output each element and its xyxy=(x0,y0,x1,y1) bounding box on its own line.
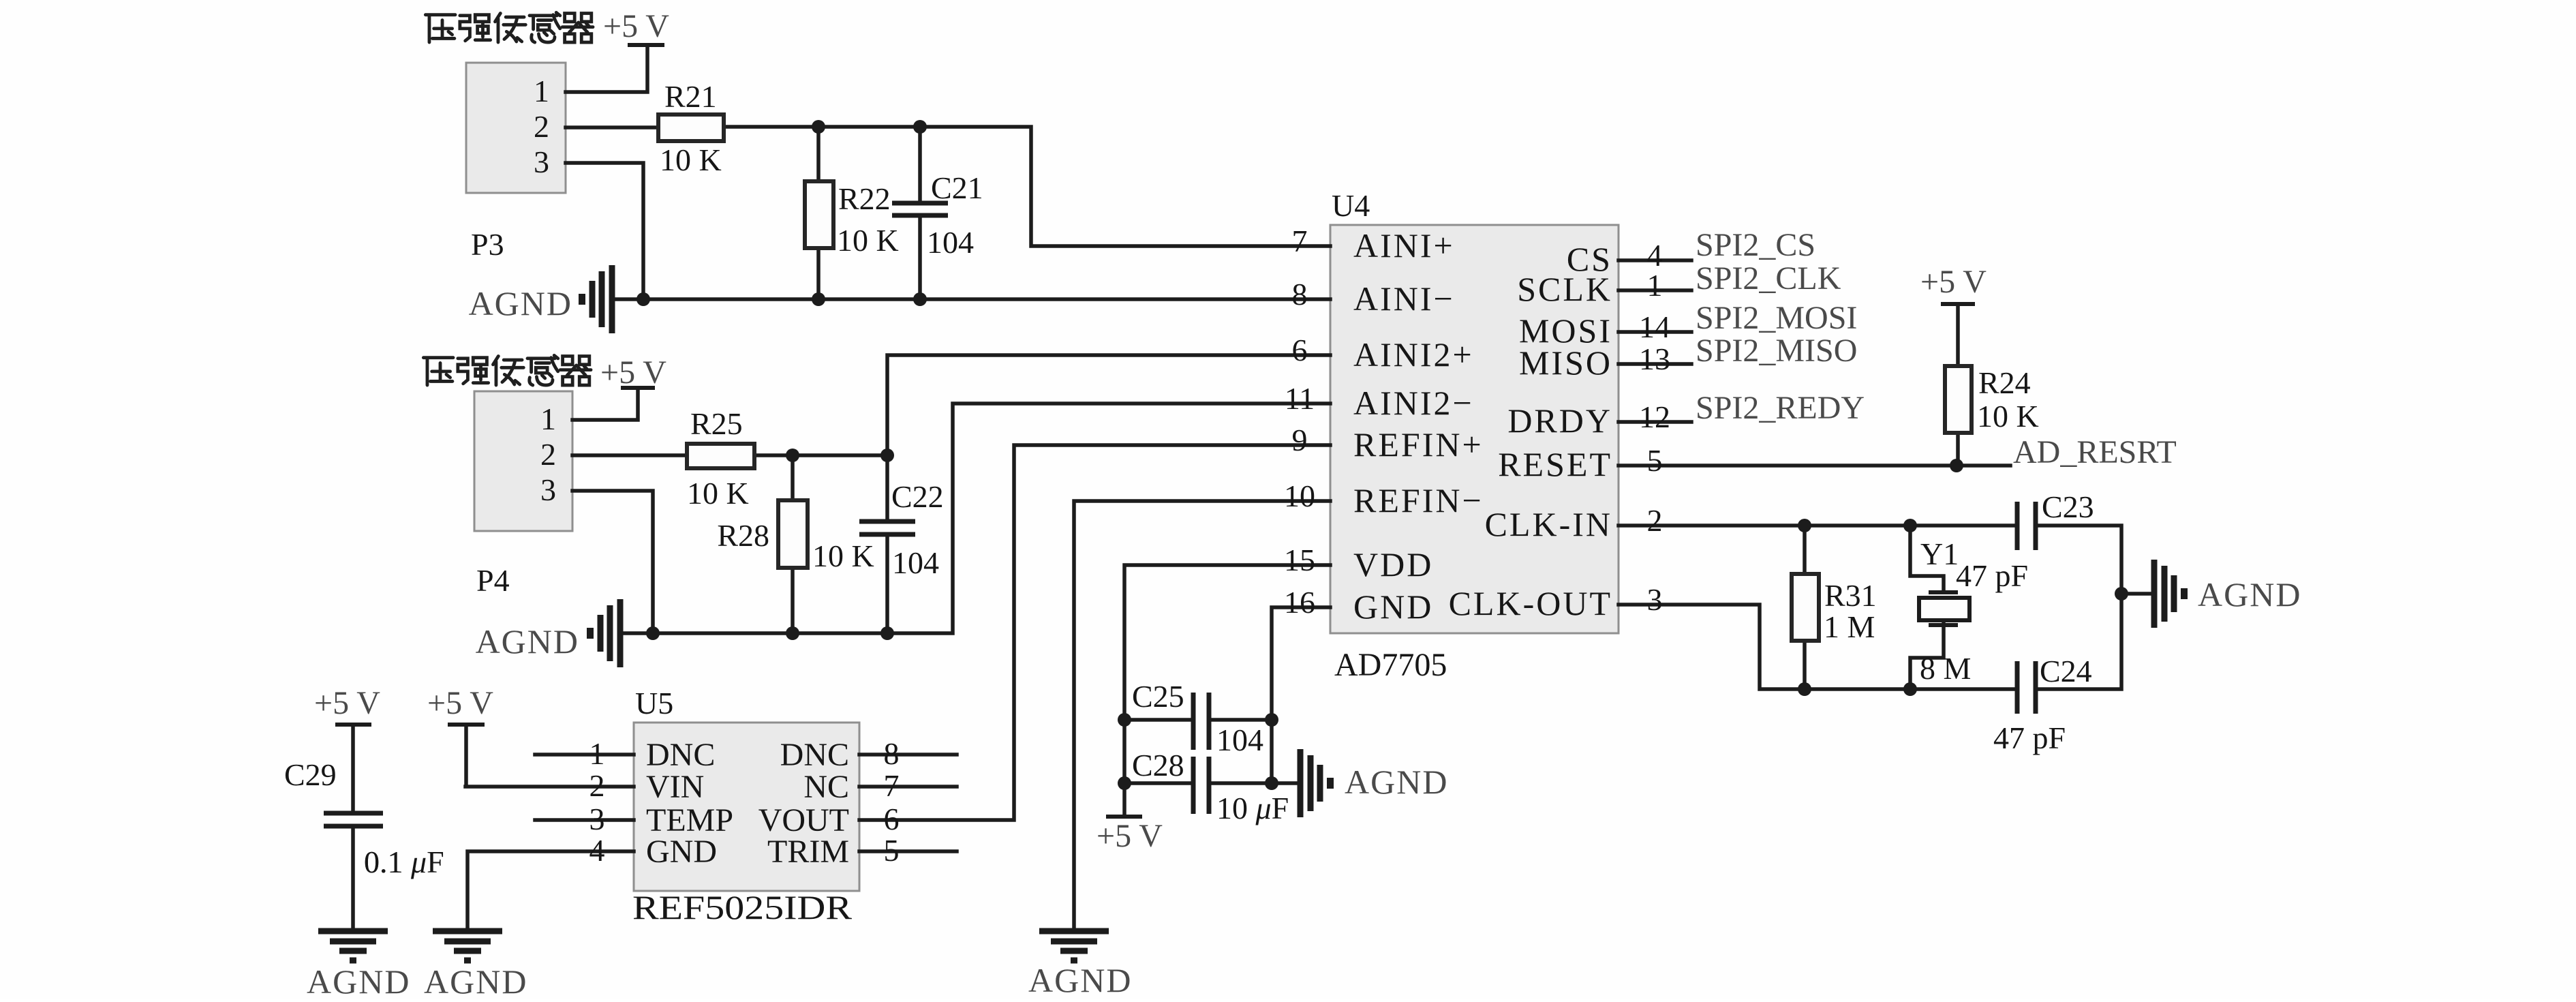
svg-text:C23: C23 xyxy=(2042,489,2094,524)
svg-text:VDD: VDD xyxy=(1353,545,1433,583)
svg-text:TRIM: TRIM xyxy=(767,834,849,870)
svg-text:5: 5 xyxy=(884,833,900,868)
svg-text:REFIN+: REFIN+ xyxy=(1353,425,1484,464)
svg-text:1 M: 1 M xyxy=(1824,609,1875,644)
svg-text:AD_RESRT: AD_RESRT xyxy=(2013,434,2177,470)
svg-text:11: 11 xyxy=(1285,381,1315,416)
svg-text:DNC: DNC xyxy=(780,737,849,773)
svg-text:DRDY: DRDY xyxy=(1507,401,1612,440)
svg-text:12: 12 xyxy=(1639,399,1670,434)
svg-text:16: 16 xyxy=(1284,585,1315,620)
svg-text:+5 V: +5 V xyxy=(314,685,380,721)
svg-text:10 K: 10 K xyxy=(1977,399,2039,434)
svg-text:R31: R31 xyxy=(1824,578,1877,613)
svg-text:1: 1 xyxy=(540,401,556,436)
svg-text:AGND: AGND xyxy=(2198,575,2301,613)
svg-text:1: 1 xyxy=(534,74,549,108)
svg-text:GND: GND xyxy=(1353,588,1433,626)
svg-text:2: 2 xyxy=(589,768,605,803)
svg-text:15: 15 xyxy=(1284,543,1315,577)
svg-text:DNC: DNC xyxy=(646,737,715,773)
svg-text:CLK-IN: CLK-IN xyxy=(1485,505,1612,543)
svg-text:NC: NC xyxy=(803,769,849,805)
svg-text:104: 104 xyxy=(892,545,939,580)
svg-text:13: 13 xyxy=(1639,341,1670,376)
svg-text:AINI−: AINI− xyxy=(1353,279,1455,318)
svg-text:R25: R25 xyxy=(690,406,743,441)
svg-text:+5 V: +5 V xyxy=(1097,818,1163,854)
svg-text:AGND: AGND xyxy=(476,622,579,661)
svg-text:C28: C28 xyxy=(1132,748,1184,783)
svg-text:AGND: AGND xyxy=(424,962,527,999)
svg-text:8: 8 xyxy=(1292,277,1308,312)
svg-text:MISO: MISO xyxy=(1519,344,1612,382)
svg-text:10 K: 10 K xyxy=(660,142,722,177)
svg-text:10 K: 10 K xyxy=(837,223,899,258)
svg-text:C21: C21 xyxy=(931,170,983,205)
svg-text:CLK-OUT: CLK-OUT xyxy=(1449,584,1612,622)
svg-text:REFIN−: REFIN− xyxy=(1353,481,1484,519)
svg-text:Y1: Y1 xyxy=(1920,536,1959,571)
svg-text:R22: R22 xyxy=(838,181,891,216)
svg-text:U5: U5 xyxy=(635,686,673,720)
svg-text:SCLK: SCLK xyxy=(1517,270,1612,308)
svg-text:U4: U4 xyxy=(1332,188,1370,223)
svg-text:10: 10 xyxy=(1284,479,1315,513)
svg-text:2: 2 xyxy=(1647,503,1663,538)
svg-text:AGND: AGND xyxy=(469,284,572,322)
svg-text:47 pF: 47 pF xyxy=(1993,720,2066,755)
svg-text:AGND: AGND xyxy=(1028,961,1132,999)
svg-text:SPI2_CS: SPI2_CS xyxy=(1696,227,1815,263)
svg-text:AD7705: AD7705 xyxy=(1334,647,1447,683)
svg-text:AGND: AGND xyxy=(307,962,410,999)
svg-text:R24: R24 xyxy=(1978,365,2031,400)
svg-text:14: 14 xyxy=(1639,309,1670,344)
svg-text:C24: C24 xyxy=(2040,654,2092,688)
svg-text:6: 6 xyxy=(884,802,900,836)
svg-text:2: 2 xyxy=(534,109,549,144)
svg-text:SPI2_CLK: SPI2_CLK xyxy=(1696,260,1841,297)
svg-text:+5 V: +5 V xyxy=(1920,264,1987,300)
svg-text:VIN: VIN xyxy=(646,769,704,805)
svg-text:8 M: 8 M xyxy=(1920,651,1971,686)
svg-text:+5 V: +5 V xyxy=(603,8,669,44)
svg-text:3: 3 xyxy=(534,145,549,179)
svg-text:9: 9 xyxy=(1292,423,1308,457)
svg-text:1: 1 xyxy=(589,736,605,771)
svg-text:R28: R28 xyxy=(717,518,769,553)
svg-text:4: 4 xyxy=(589,833,605,868)
svg-text:3: 3 xyxy=(540,472,556,507)
svg-text:+5 V: +5 V xyxy=(600,354,666,391)
svg-text:REF5025IDR: REF5025IDR xyxy=(632,888,853,926)
svg-text:C25: C25 xyxy=(1132,679,1184,714)
svg-text:AINI2+: AINI2+ xyxy=(1353,335,1474,374)
svg-text:+5 V: +5 V xyxy=(427,685,493,721)
svg-text:AGND: AGND xyxy=(1345,763,1448,801)
svg-text:6: 6 xyxy=(1292,333,1308,367)
svg-text:7: 7 xyxy=(1292,224,1308,258)
svg-text:3: 3 xyxy=(589,802,605,836)
svg-text:5: 5 xyxy=(1647,443,1663,478)
svg-text:AINI+: AINI+ xyxy=(1353,226,1455,264)
svg-text:C22: C22 xyxy=(891,479,944,514)
svg-text:P3: P3 xyxy=(471,227,504,262)
svg-text:3: 3 xyxy=(1647,582,1663,617)
svg-text:SPI2_REDY: SPI2_REDY xyxy=(1696,390,1865,426)
svg-text:8: 8 xyxy=(884,736,900,771)
svg-text:0.1 μF: 0.1 μF xyxy=(364,845,444,879)
svg-text:1: 1 xyxy=(1647,268,1663,303)
svg-text:10 K: 10 K xyxy=(687,476,749,511)
svg-text:C29: C29 xyxy=(284,757,337,792)
svg-text:47 pF: 47 pF xyxy=(1956,558,2028,593)
svg-text:SPI2_MISO: SPI2_MISO xyxy=(1696,333,1857,369)
svg-text:7: 7 xyxy=(884,768,900,803)
svg-text:RESET: RESET xyxy=(1498,445,1612,483)
svg-text:R21: R21 xyxy=(664,79,717,114)
svg-text:2: 2 xyxy=(540,437,556,472)
svg-text:104: 104 xyxy=(927,225,974,260)
svg-text:GND: GND xyxy=(646,834,717,870)
svg-text:10 μF: 10 μF xyxy=(1216,791,1289,825)
svg-text:104: 104 xyxy=(1216,723,1263,757)
svg-text:AINI2−: AINI2− xyxy=(1353,384,1474,422)
svg-text:10 K: 10 K xyxy=(812,538,874,573)
svg-text:P4: P4 xyxy=(476,563,510,598)
svg-text:SPI2_MOSI: SPI2_MOSI xyxy=(1696,300,1857,336)
